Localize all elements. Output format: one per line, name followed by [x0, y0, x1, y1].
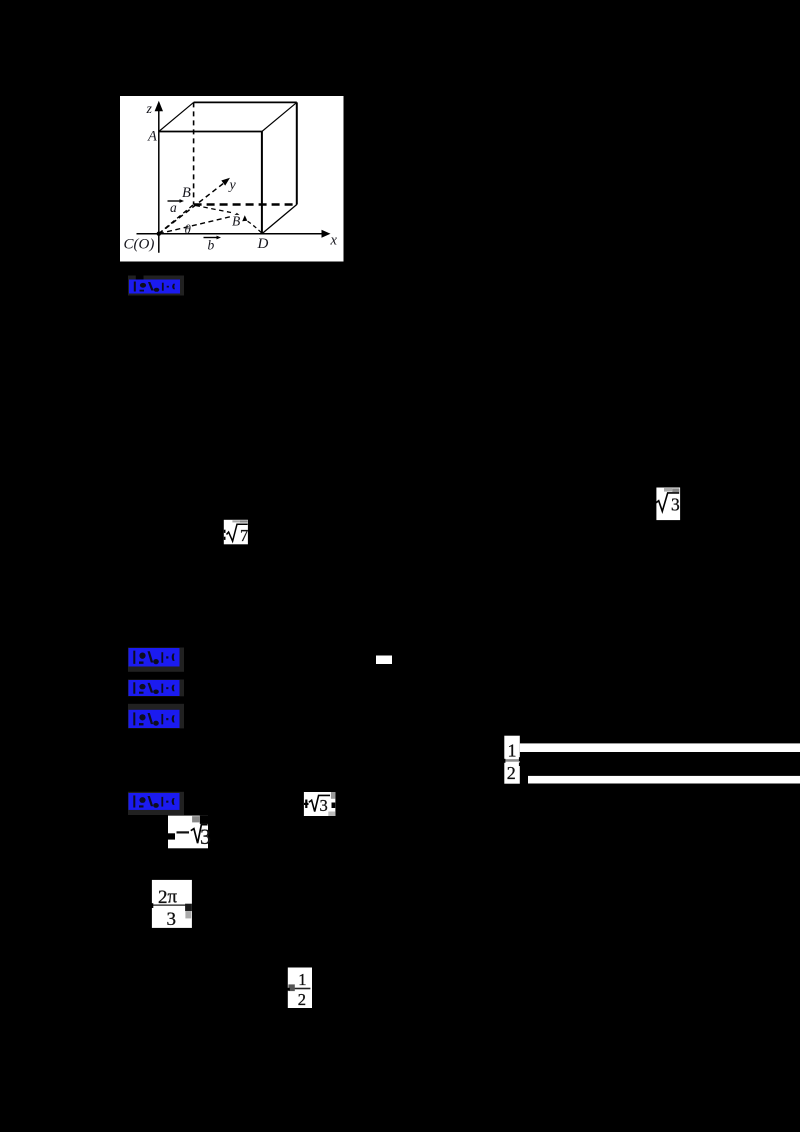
svg-text:7: 7 — [240, 526, 248, 545]
label 2 highlight block — [128, 648, 184, 672]
figure: dashed arc from D to B' — [247, 221, 262, 233]
svg-text:A: A — [147, 129, 157, 145]
svg-text:D: D — [257, 236, 269, 252]
label 3 highlight block — [128, 680, 184, 697]
figure: z-axis — [158, 110, 160, 253]
svg-text:B: B — [232, 214, 240, 229]
svg-text:B: B — [182, 185, 191, 201]
label 4 highlight block — [128, 704, 184, 729]
figure: dashed back-left vertical edge — [193, 102, 195, 204]
label 5 (solution) highlight block — [128, 792, 184, 815]
formula sqrt(3) box 1 — [656, 488, 680, 521]
white bar top — [520, 743, 800, 752]
white bar bottom — [528, 776, 800, 784]
formula sqrt(3) box 2 — [304, 792, 336, 816]
figure: dashed vector OB' — [159, 217, 230, 234]
figure: white image box — [120, 96, 344, 262]
figure: cube solid edges — [159, 102, 297, 233]
svg-text:z: z — [146, 102, 153, 117]
formula 1/2 box 2 — [287, 968, 312, 1009]
figure: origin dot — [157, 232, 161, 236]
label 1 (answer) highlight block — [128, 276, 184, 296]
svg-text:y: y — [228, 178, 237, 193]
formula 2pi/3 box — [151, 880, 192, 930]
svg-text:x: x — [330, 233, 338, 249]
svg-text:3: 3 — [320, 796, 328, 815]
svg-text:b: b — [208, 238, 215, 253]
formula -sqrt(3) box — [168, 816, 211, 849]
svg-text:3: 3 — [167, 909, 177, 930]
figure: dashed line B to B' — [196, 206, 232, 213]
figure: dashed back-bottom edge — [194, 203, 297, 205]
svg-text:C(O): C(O) — [124, 237, 155, 253]
svg-text:1: 1 — [508, 741, 517, 761]
svg-text:2: 2 — [507, 763, 516, 783]
svg-text:3: 3 — [671, 495, 680, 515]
figure: dashed vector OB — [159, 205, 194, 234]
svg-text:2: 2 — [298, 990, 306, 1009]
svg-text:3: 3 — [200, 824, 211, 849]
svg-text:θ: θ — [185, 222, 192, 237]
figure: x-axis — [137, 233, 323, 235]
white dash image — [376, 656, 392, 665]
formula 1/2 box with white bars row — [504, 736, 800, 784]
svg-text:1: 1 — [298, 970, 306, 989]
formula sqrt(7) box — [224, 520, 248, 545]
svg-text:a: a — [170, 200, 177, 215]
figure: dashed y-axis from origin — [159, 183, 224, 233]
